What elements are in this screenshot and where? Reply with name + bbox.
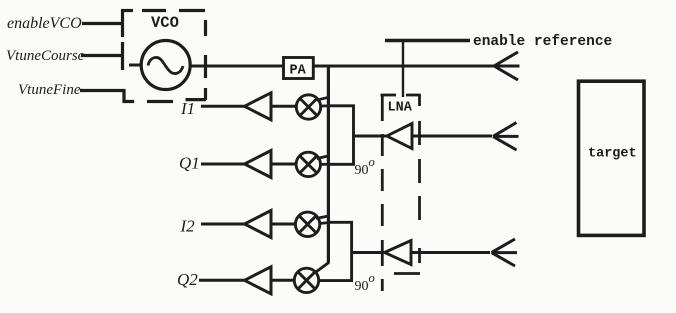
amplifier LNA2 — [385, 241, 412, 265]
PA box — [284, 58, 314, 79]
svg-text:Q2: Q2 — [177, 270, 198, 289]
mixer M2 — [296, 152, 320, 176]
amplifier I2 (baseband) — [245, 211, 272, 238]
mixer M3 — [295, 212, 319, 236]
wire mixer M3 to splitter2 — [319, 223, 329, 224]
wire LNA1 input from RX antenna 1 — [412, 135, 492, 138]
wire mixer M1 to splitter — [320, 105, 329, 108]
LNA dashed enclosure — [381, 95, 421, 291]
svg-text:Q1: Q1 — [179, 154, 200, 173]
svg-text:VCO: VCO — [151, 14, 179, 32]
90-degree hybrid splitter 2 — [319, 222, 352, 280]
wire VCO output to PA — [190, 65, 283, 68]
antenna RX2 (crow's foot) — [492, 239, 518, 266]
oscillator symbol (VCO circle) — [141, 41, 190, 90]
wire mixer M3 stub to LO — [316, 216, 329, 219]
svg-text:90o: 90o — [355, 271, 375, 294]
mixer M1 — [296, 95, 320, 119]
amplifier LNA1 — [387, 124, 412, 149]
amplifier Q1 (baseband) — [245, 151, 272, 178]
wire I2 output — [201, 223, 245, 226]
wire VtuneFine input — [80, 91, 134, 102]
wire VCO left stub — [129, 64, 142, 67]
wire mixer M4 stub to LO end — [315, 262, 329, 272]
svg-text:enableVCO: enableVCO — [7, 15, 82, 32]
sine wave inside oscillator — [148, 58, 183, 74]
wire I1 output — [201, 105, 245, 108]
wire mixer M1 stub to LO — [317, 97, 329, 100]
wire enableVCO input — [82, 22, 123, 25]
amplifier I1 (baseband) — [245, 93, 272, 120]
wire amp Q1 to mixer M2 — [271, 163, 297, 166]
svg-text:90o: 90o — [355, 155, 375, 178]
wire amp I1 to mixer M1 — [271, 105, 297, 108]
wire mixer M2 stub to LO — [317, 156, 329, 159]
svg-text:VtuneCourse: VtuneCourse — [6, 48, 85, 64]
antenna TX (crow's foot) — [494, 52, 520, 80]
antenna RX1 (crow's foot) — [493, 123, 519, 151]
svg-text:PA: PA — [290, 64, 307, 79]
wire enable reference drop to LNA — [402, 41, 404, 97]
wire PA output (TX line to antenna) — [314, 65, 495, 68]
wire Q1 output — [201, 163, 245, 166]
wire LNA2 input from RX antenna 2 — [411, 251, 490, 254]
svg-text:VtuneFine: VtuneFine — [18, 82, 81, 98]
wire mixer M2 to splitter — [320, 163, 330, 166]
svg-text:LNA: LNA — [388, 101, 413, 116]
90-degree hybrid splitter 1 — [328, 106, 353, 165]
wire enable reference — [385, 39, 470, 42]
VCO dashed enclosure — [121, 10, 206, 102]
wire Q2 output — [199, 279, 245, 282]
wire amp I2 to mixer M3 — [271, 223, 296, 226]
svg-text:target: target — [588, 146, 637, 161]
svg-text:I2: I2 — [180, 217, 196, 236]
amplifier Q2 (baseband) — [245, 267, 272, 294]
wire amp Q2 to mixer M4 — [271, 279, 295, 282]
wire LO distribution (vertical from PA output) — [327, 65, 330, 263]
target box — [579, 81, 645, 235]
svg-text:I1: I1 — [180, 99, 195, 118]
mixer M4 — [294, 268, 318, 292]
wire splitter2 to LNA2 — [352, 251, 385, 254]
wire splitter1 to LNA1 — [354, 135, 388, 138]
svg-text:enable reference: enable reference — [473, 34, 612, 50]
wire VtuneCourse input — [81, 54, 123, 57]
